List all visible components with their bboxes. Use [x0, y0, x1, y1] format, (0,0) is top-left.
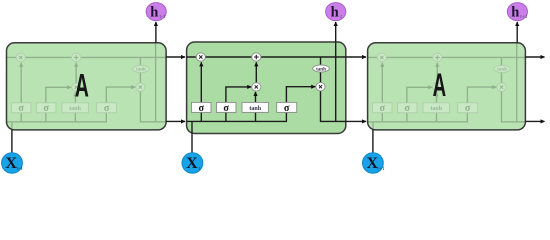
cell A(t-1) faded internals: [7, 43, 166, 134]
wire: h line left cell to middle cell: [166, 120, 185, 122]
wire: arrow up to h(t): [335, 22, 337, 42]
wire: X(t) up into middle cell: [191, 134, 193, 153]
wire: C line left cell to middle cell: [166, 56, 185, 58]
node X(t-1): [2, 153, 23, 173]
svg-text:A: A: [75, 67, 89, 103]
svg-text:h: h: [150, 5, 158, 21]
node h(t): [326, 3, 346, 21]
svg-text:t+1: t+1: [377, 166, 385, 172]
wire: h line middle cell to right cell: [346, 120, 366, 122]
wire: X(t+1) up into right cell: [372, 130, 374, 153]
wire: X(t-1) up into left cell: [11, 130, 13, 153]
cell A(t) internals: [187, 42, 346, 133]
cell A(t) body: [187, 42, 346, 134]
svg-text:A: A: [433, 67, 447, 103]
svg-text:t-1: t-1: [159, 14, 165, 20]
node h(t+1): [507, 3, 527, 21]
svg-text:t-1: t-1: [17, 166, 23, 172]
node h(t-1): [146, 3, 166, 21]
svg-text:X: X: [5, 155, 17, 172]
svg-text:h: h: [511, 5, 519, 21]
svg-text:X: X: [186, 155, 198, 172]
wire: arrow up to h(t+1): [516, 22, 518, 43]
svg-text:h: h: [331, 5, 339, 21]
cell A(t+1) body: [368, 43, 526, 130]
wire: C line out of right cell: [525, 56, 544, 58]
wire: h line out of right cell: [525, 120, 544, 122]
wire: C line middle cell to right cell: [346, 56, 366, 58]
cell A(t-1) body: [7, 43, 167, 130]
node X(t): [182, 153, 203, 173]
node X(t+1): [363, 153, 384, 173]
svg-text:t+1: t+1: [520, 14, 528, 20]
wire: arrow up to h(t-1): [155, 22, 157, 43]
cell A(t+1) faded internals: [368, 43, 527, 134]
